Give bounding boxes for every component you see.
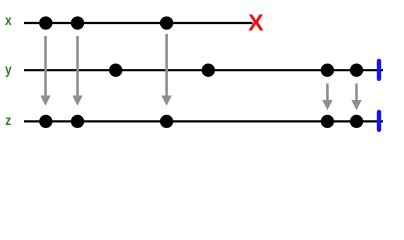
svg-text:z: z [5,112,11,128]
svg-text:X: X [248,10,264,36]
svg-text:x: x [5,12,12,28]
svg-text:y: y [5,61,12,77]
